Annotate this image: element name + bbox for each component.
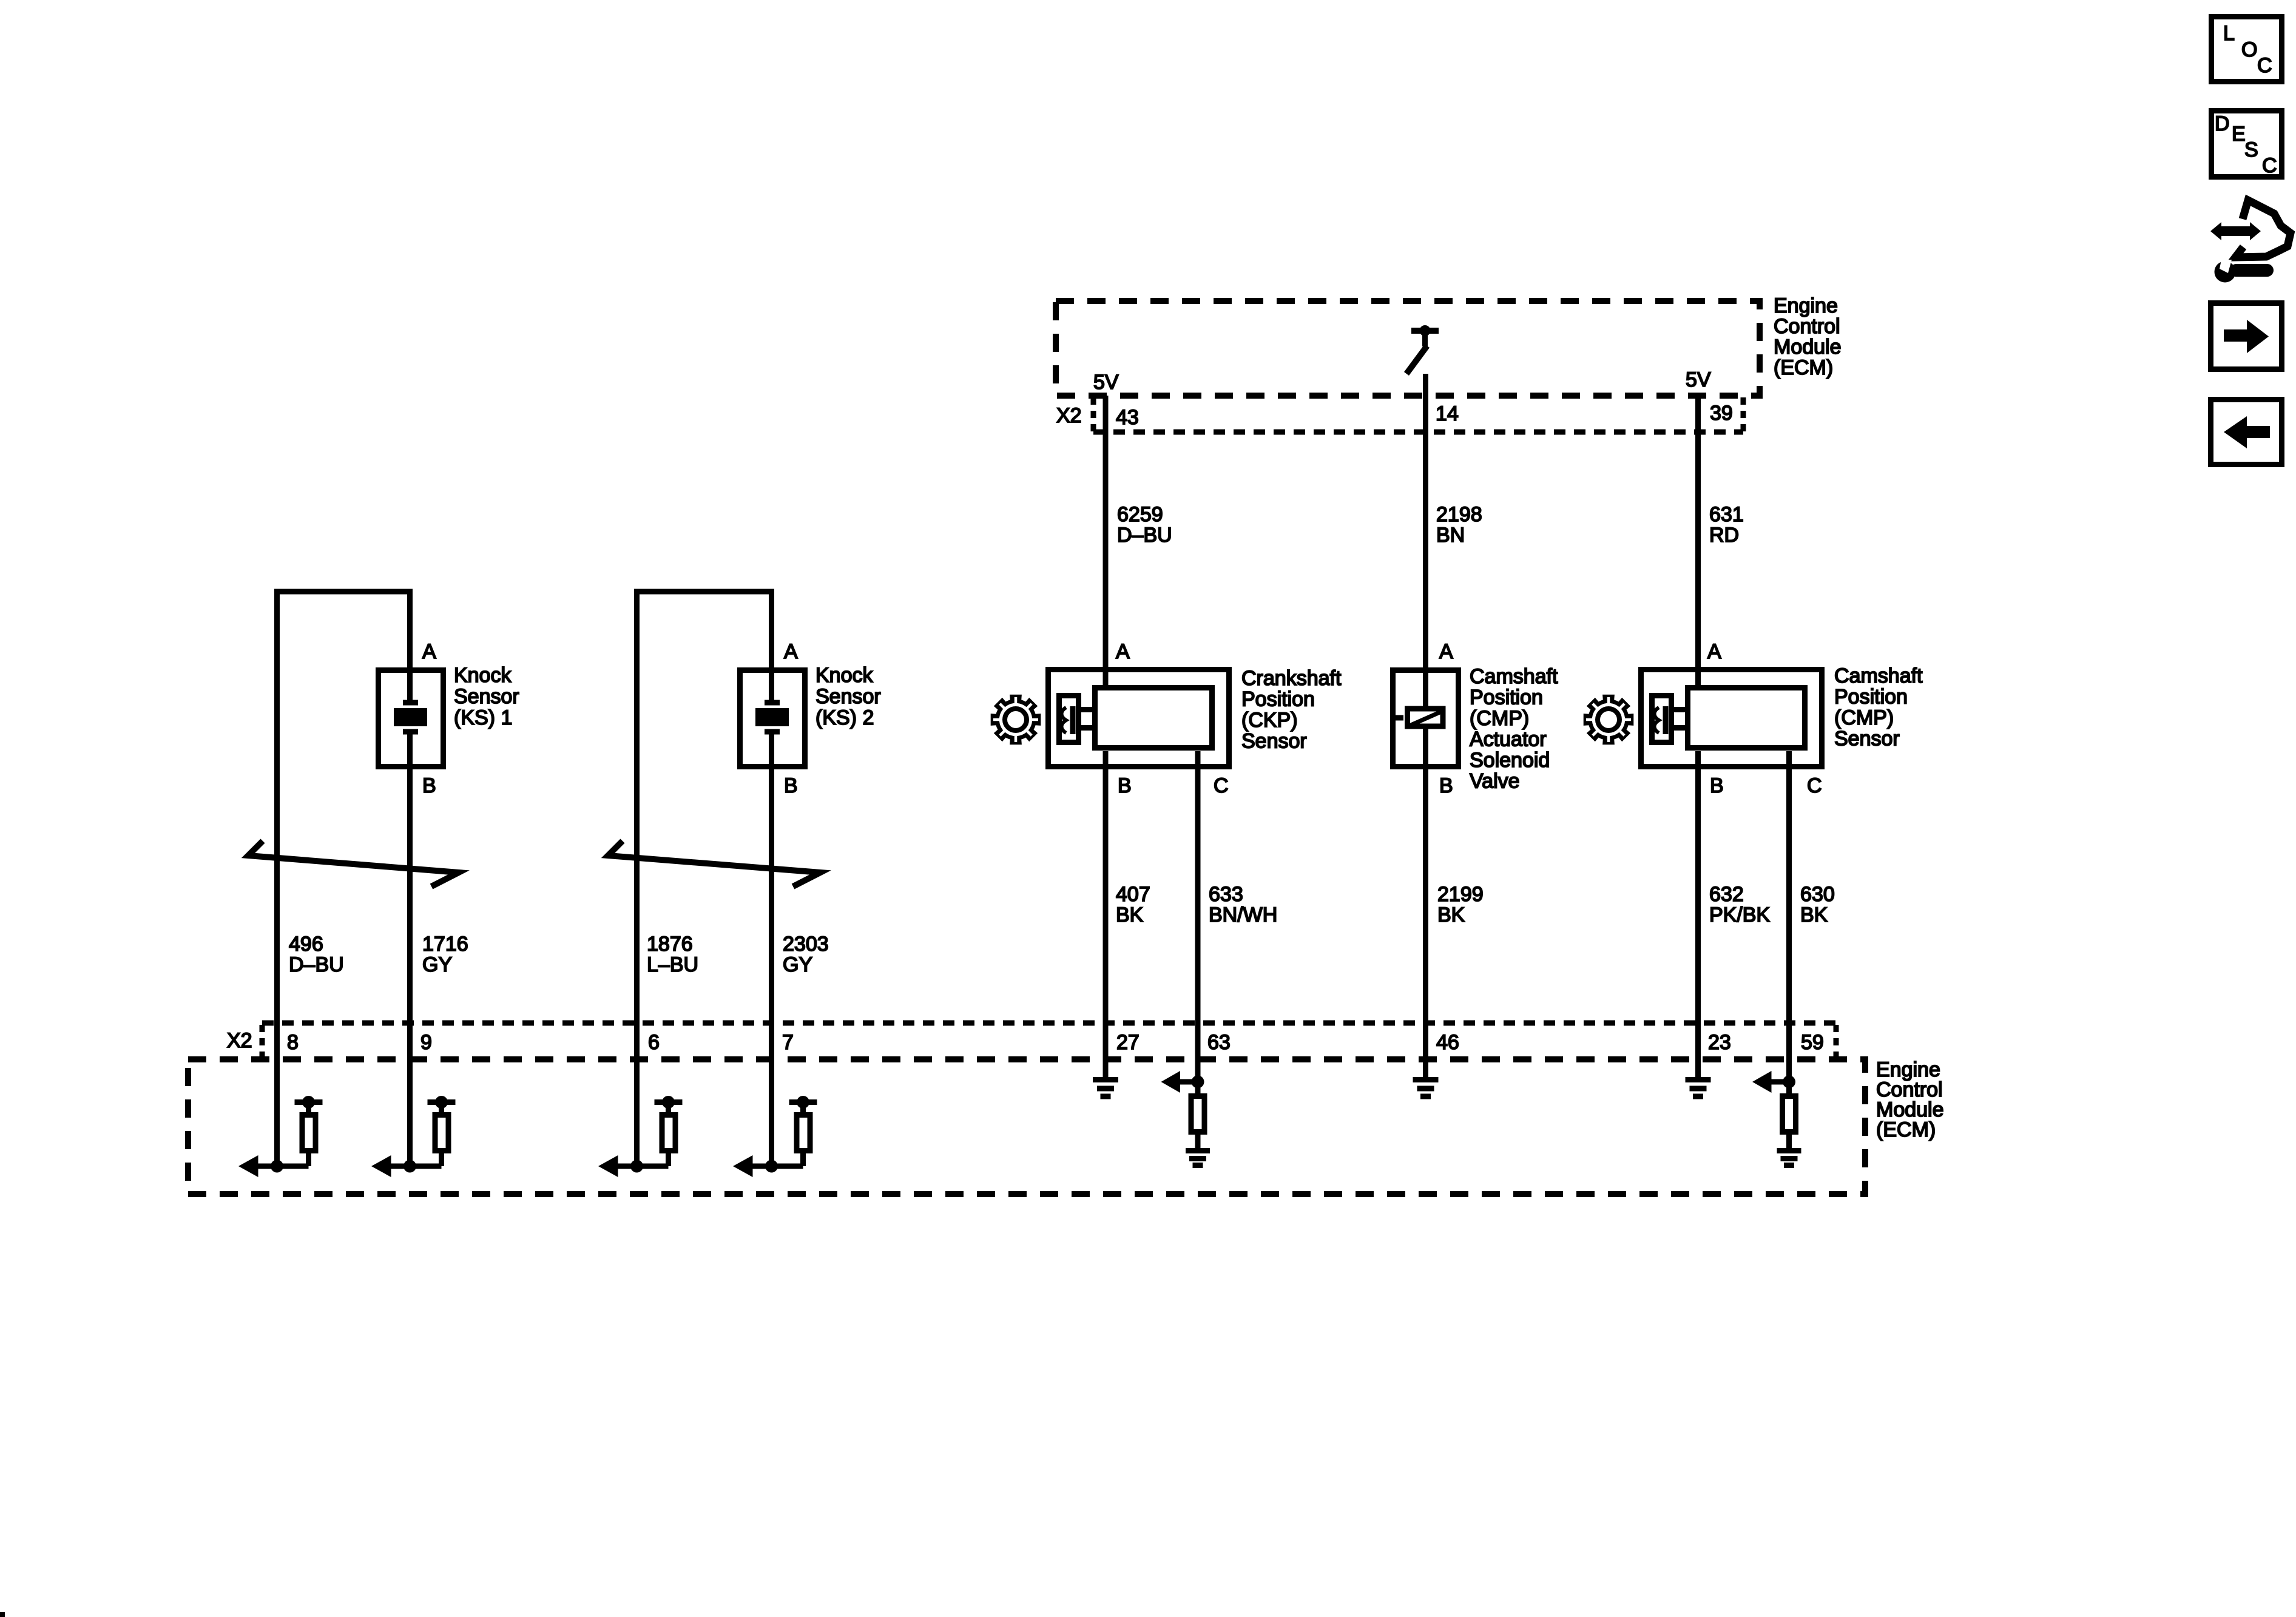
svg-text:5V: 5V xyxy=(1686,368,1711,391)
ground symbol at pin 46 xyxy=(1413,1080,1439,1097)
label Crankshaft Position (CKP) Sensor xyxy=(1241,667,1342,753)
svg-text:Valve: Valve xyxy=(1470,770,1520,793)
icon remove/install (double arrow, part outline, wrench) xyxy=(2210,200,2291,283)
knock sensor KS1 box xyxy=(379,670,444,767)
twisted pair crossing symbol KS1 xyxy=(248,841,459,886)
wire: stub to resistor at pin 59 xyxy=(1786,1082,1792,1096)
wire 2198 BN (switch to solenoid A) xyxy=(1423,374,1428,709)
svg-text:D: D xyxy=(2215,112,2230,135)
svg-text:630: 630 xyxy=(1800,883,1835,906)
wire: resistor top stub pin 9 xyxy=(439,1102,444,1113)
wire 6259 D-BU (pin 43 to CKP A) xyxy=(1103,396,1109,687)
internal rail bar at pin 9 xyxy=(428,1099,456,1105)
CKP sensor outer housing box xyxy=(1048,670,1229,767)
wire: resistor top stub pin 6 xyxy=(666,1102,671,1113)
solenoid coil rectangle xyxy=(1408,709,1443,726)
wire: KS2 pin A loop (up, left, down to ECM) xyxy=(637,592,772,1166)
label wire 1876 L-BU xyxy=(647,933,698,976)
CKP sensor gear wheel icon xyxy=(991,695,1041,745)
icon DESC box xyxy=(2212,111,2282,178)
svg-text:BN/WH: BN/WH xyxy=(1209,903,1277,927)
icon forward arrow box xyxy=(2211,303,2282,370)
svg-text:(KS) 2: (KS) 2 xyxy=(815,706,874,729)
svg-text:B: B xyxy=(1118,774,1132,797)
junction dot on rail at pin 8 xyxy=(302,1096,315,1109)
wire: horizontal branch at pin 8 xyxy=(258,1164,309,1169)
label Camshaft Position (CMP) Sensor xyxy=(1834,664,1923,751)
svg-text:(KS) 1: (KS) 1 xyxy=(454,706,512,729)
internal rail bar at pin 6 xyxy=(655,1099,683,1105)
knock sensor KS2 box xyxy=(740,670,805,767)
solenoid left tick xyxy=(1391,715,1403,721)
arrow (circuit continues) at pin 9 xyxy=(371,1155,391,1177)
svg-text:BK: BK xyxy=(1437,903,1465,927)
svg-text:Position: Position xyxy=(1470,686,1543,709)
internal rail bar at pin 8 xyxy=(295,1099,323,1105)
svg-text:8: 8 xyxy=(287,1031,299,1054)
CMP sensor gear wheel icon xyxy=(1584,695,1634,745)
svg-text:1876: 1876 xyxy=(647,933,693,956)
arrow (circuit continues) at pin 63 xyxy=(1161,1071,1181,1093)
resistor R at pin 63 xyxy=(1191,1096,1204,1132)
CKP sensor inner element box xyxy=(1095,688,1212,748)
node junction at pin 9 inside ECM xyxy=(403,1160,416,1173)
ECM bottom dashed box (Engine Control Module) xyxy=(188,1059,1865,1194)
svg-text:O: O xyxy=(2241,38,2257,61)
wire: KS2 pin B down to ECM xyxy=(769,732,774,1166)
node junction at pin 7 inside ECM xyxy=(765,1160,778,1173)
svg-text:Sensor: Sensor xyxy=(454,685,519,708)
svg-text:B: B xyxy=(1710,774,1724,797)
resistor R at pin 6 xyxy=(662,1115,675,1151)
svg-text:BN: BN xyxy=(1436,524,1465,547)
wire 630 BK (CMP C to pin 59) xyxy=(1786,751,1792,1082)
svg-text:Position: Position xyxy=(1834,686,1908,709)
svg-text:9: 9 xyxy=(420,1031,432,1054)
svg-text:27: 27 xyxy=(1116,1031,1140,1054)
svg-text:PK/BK: PK/BK xyxy=(1709,903,1770,927)
svg-text:GY: GY xyxy=(422,953,452,976)
resistor R at pin 8 xyxy=(302,1115,316,1151)
svg-text:(CMP): (CMP) xyxy=(1834,706,1894,729)
arrow (circuit continues) at pin 59 xyxy=(1752,1071,1772,1093)
resistor R at pin 9 xyxy=(435,1115,448,1151)
wire 632 PK/BK (CMP B to pin 23) xyxy=(1695,751,1701,1079)
CKP sensor stub lower xyxy=(1081,725,1095,731)
connector X2 bottom: right edge xyxy=(1834,1025,1839,1058)
svg-text:Knock: Knock xyxy=(815,664,873,687)
svg-text:C: C xyxy=(2257,54,2272,77)
svg-text:C: C xyxy=(1807,774,1822,797)
switch blade xyxy=(1406,346,1427,374)
svg-text:C: C xyxy=(1214,774,1229,797)
label wire 496 D-BU xyxy=(289,933,344,976)
svg-text:1716: 1716 xyxy=(422,933,468,956)
svg-text:6: 6 xyxy=(648,1031,660,1054)
svg-text:Module: Module xyxy=(1774,336,1842,359)
ground symbol at pin 59 xyxy=(1777,1151,1801,1166)
CKP sensor stub upper xyxy=(1081,707,1095,712)
connector X2 bottom: left edge xyxy=(260,1025,265,1058)
wire: horizontal branch at pin 7 xyxy=(753,1164,803,1169)
CKP sensor pickup coil box xyxy=(1059,696,1079,743)
svg-text:E: E xyxy=(2232,123,2246,146)
svg-text:63: 63 xyxy=(1207,1031,1231,1054)
svg-text:A: A xyxy=(422,640,436,663)
junction dot on rail at pin 9 xyxy=(435,1096,448,1109)
wire 631 RD (pin 39 to CMP A) xyxy=(1695,396,1701,687)
svg-text:633: 633 xyxy=(1209,883,1243,906)
svg-text:A: A xyxy=(1439,640,1453,663)
CMP sensor pickup coil box xyxy=(1652,696,1672,743)
ground symbol at pin 23 xyxy=(1686,1080,1711,1097)
svg-text:C: C xyxy=(2262,154,2277,177)
CMP sensor inner element box xyxy=(1688,688,1805,748)
label wire 630 BK xyxy=(1800,883,1835,927)
svg-text:(ECM): (ECM) xyxy=(1774,356,1833,379)
svg-text:43: 43 xyxy=(1116,406,1139,429)
wire: stub to resistor at pin 63 xyxy=(1195,1082,1201,1096)
arrow (circuit continues) at pin 6 xyxy=(598,1155,618,1177)
connector X2 bottom: top dashed line xyxy=(262,1021,1836,1026)
node junction at pin 8 inside ECM xyxy=(271,1160,283,1173)
wire: resistor bottom stub pin 8 xyxy=(306,1153,311,1166)
svg-text:B: B xyxy=(784,774,798,797)
svg-text:2198: 2198 xyxy=(1436,503,1482,526)
KS2 piezo element top plate xyxy=(765,700,780,706)
wire: resistor top stub pin 8 xyxy=(306,1102,311,1113)
svg-text:X2: X2 xyxy=(227,1029,252,1052)
svg-text:46: 46 xyxy=(1436,1031,1459,1054)
label Engine Control Module (ECM) top xyxy=(1774,294,1842,379)
svg-text:BK: BK xyxy=(1800,903,1828,927)
switch driver inside ECM (bar) xyxy=(1411,328,1439,334)
svg-text:Knock: Knock xyxy=(454,664,512,687)
svg-text:Sensor: Sensor xyxy=(1834,727,1900,751)
wire: resistor to ground stub at pin 63 xyxy=(1195,1135,1201,1148)
svg-text:B: B xyxy=(1439,774,1453,797)
svg-text:X2: X2 xyxy=(1056,404,1082,427)
KS1 piezo element top plate xyxy=(403,700,418,706)
wire: resistor to ground stub at pin 59 xyxy=(1786,1135,1792,1148)
label wire 2303 GY xyxy=(783,933,829,976)
svg-text:496: 496 xyxy=(289,933,323,956)
svg-text:Sensor: Sensor xyxy=(1241,730,1307,753)
wire: horizontal branch at pin 59 xyxy=(1771,1079,1789,1085)
resistor R at pin 59 xyxy=(1783,1096,1796,1132)
resistor R at pin 7 xyxy=(797,1115,810,1151)
KS1 piezo element body xyxy=(394,708,427,726)
svg-text:(ECM): (ECM) xyxy=(1876,1118,1936,1141)
CMP sensor coil squiggle xyxy=(1655,707,1660,733)
label wire 407 BK xyxy=(1116,883,1150,927)
svg-text:632: 632 xyxy=(1709,883,1744,906)
label wire 2199 BK xyxy=(1437,883,1484,927)
svg-text:5V: 5V xyxy=(1093,371,1119,394)
svg-text:A: A xyxy=(1707,640,1721,663)
svg-text:D–BU: D–BU xyxy=(289,953,344,976)
svg-text:2303: 2303 xyxy=(783,933,829,956)
junction dot on rail at pin 6 xyxy=(662,1096,675,1109)
internal rail bar at pin 7 xyxy=(789,1099,817,1105)
node junction at pin 59 inside ECM xyxy=(1783,1076,1795,1089)
label Knock Sensor (KS) 1 xyxy=(454,664,519,729)
svg-text:407: 407 xyxy=(1116,883,1150,906)
connector X2 top: right edge xyxy=(1741,397,1746,432)
svg-text:B: B xyxy=(422,774,436,797)
solenoid diagonal xyxy=(1410,712,1441,726)
svg-text:Solenoid: Solenoid xyxy=(1470,749,1550,772)
icon back arrow box xyxy=(2211,400,2282,465)
svg-text:A: A xyxy=(1116,640,1130,663)
svg-text:Actuator: Actuator xyxy=(1470,728,1547,751)
CKP sensor coil core bar xyxy=(1070,706,1076,734)
KS1 piezo element bottom plate xyxy=(403,729,418,735)
svg-text:Sensor: Sensor xyxy=(815,685,881,708)
junction dot on switch bar xyxy=(1420,325,1431,336)
label wire 1716 GY xyxy=(422,933,468,976)
CMP sensor stub upper xyxy=(1674,707,1688,712)
svg-text:L–BU: L–BU xyxy=(647,953,698,976)
label wire 2198 BN xyxy=(1436,503,1482,547)
switch stub xyxy=(1422,331,1428,346)
svg-text:Engine: Engine xyxy=(1774,294,1838,317)
CMP sensor stub lower xyxy=(1674,725,1688,731)
label Camshaft Position (CMP) Actuator Solenoid Valve xyxy=(1470,665,1558,793)
wire: KS1 pin B down to ECM xyxy=(407,732,413,1166)
wire 633 BN/WH (CKP C to pin 63) xyxy=(1195,751,1201,1082)
node junction at pin 63 inside ECM xyxy=(1192,1076,1204,1089)
junction dot on rail at pin 7 xyxy=(797,1096,809,1109)
wire 2199 BK (solenoid B to pin 46) xyxy=(1423,726,1428,1079)
KS2 piezo element body xyxy=(755,708,789,726)
wire 407 BK (CKP B to pin 27) xyxy=(1103,751,1109,1079)
twisted pair crossing symbol KS2 xyxy=(608,841,820,886)
wire: resistor bottom stub pin 7 xyxy=(800,1153,806,1166)
svg-text:L: L xyxy=(2223,22,2235,45)
CMP actuator solenoid valve box xyxy=(1393,670,1459,767)
connector X2 top: bottom dashed line xyxy=(1093,430,1743,435)
wire: horizontal branch at pin 6 xyxy=(618,1164,669,1169)
svg-text:(CMP): (CMP) xyxy=(1470,707,1529,730)
page corner mark xyxy=(0,1612,5,1617)
svg-text:Camshaft: Camshaft xyxy=(1470,665,1558,688)
svg-text:Position: Position xyxy=(1241,688,1315,711)
node junction at pin 6 inside ECM xyxy=(630,1160,643,1173)
svg-text:6259: 6259 xyxy=(1117,503,1163,526)
wire: resistor bottom stub pin 9 xyxy=(439,1153,444,1166)
svg-text:(CKP): (CKP) xyxy=(1241,709,1298,732)
CKP sensor coil squiggle xyxy=(1062,707,1067,733)
arrow (circuit continues) at pin 7 xyxy=(733,1155,753,1177)
label wire 632 PK/BK xyxy=(1709,883,1770,927)
CMP sensor outer housing box xyxy=(1641,670,1822,767)
wire: resistor top stub pin 7 xyxy=(800,1102,806,1113)
svg-text:2199: 2199 xyxy=(1437,883,1484,906)
svg-text:631: 631 xyxy=(1709,503,1744,526)
label wire 6259 D-BU xyxy=(1117,503,1172,547)
svg-text:RD: RD xyxy=(1709,524,1739,547)
svg-text:GY: GY xyxy=(783,953,812,976)
svg-text:Crankshaft: Crankshaft xyxy=(1241,667,1342,690)
svg-text:A: A xyxy=(784,640,798,663)
svg-text:D–BU: D–BU xyxy=(1117,524,1172,547)
svg-text:39: 39 xyxy=(1710,402,1733,425)
svg-text:Camshaft: Camshaft xyxy=(1834,664,1923,687)
label Knock Sensor (KS) 2 xyxy=(815,664,881,729)
wire: horizontal branch at pin 63 xyxy=(1180,1079,1198,1085)
wire: KS1 pin A loop (up, left, down to ECM) xyxy=(277,592,410,1166)
label wire 633 BN/WH xyxy=(1209,883,1277,927)
svg-text:BK: BK xyxy=(1116,903,1144,927)
arrow (circuit continues) at pin 8 xyxy=(238,1155,258,1177)
CMP sensor coil core bar xyxy=(1663,706,1669,734)
svg-text:14: 14 xyxy=(1436,402,1459,425)
wire: horizontal branch at pin 9 xyxy=(391,1164,442,1169)
ECM top dashed box (Engine Control Module) xyxy=(1056,301,1760,396)
connector X2 top: left edge xyxy=(1091,397,1096,432)
ground symbol at pin 27 xyxy=(1093,1080,1118,1097)
svg-text:7: 7 xyxy=(782,1031,794,1054)
svg-text:59: 59 xyxy=(1801,1031,1824,1054)
svg-text:Control: Control xyxy=(1774,315,1840,338)
label Engine Control Module (ECM) bottom xyxy=(1876,1058,1944,1141)
svg-text:23: 23 xyxy=(1708,1031,1731,1054)
KS2 piezo element bottom plate xyxy=(765,729,780,735)
ground symbol at pin 63 xyxy=(1186,1151,1210,1166)
svg-text:S: S xyxy=(2244,138,2258,161)
wire: resistor bottom stub pin 6 xyxy=(666,1153,671,1166)
label wire 631 RD xyxy=(1709,503,1744,547)
icon LOC box xyxy=(2212,17,2282,82)
